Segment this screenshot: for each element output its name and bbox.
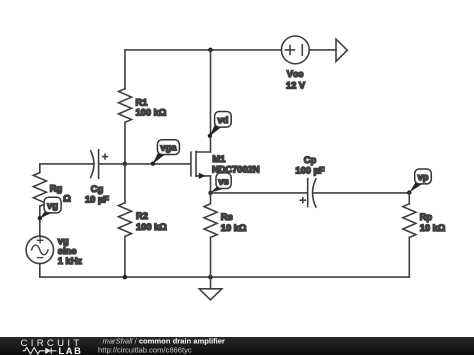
svg-text:Vcc: Vcc	[287, 69, 304, 79]
capacitor Cg	[40, 150, 109, 205]
svg-text:marShall / common drain amplif: marShall / common drain amplifier	[103, 337, 225, 346]
voltage source vg sine	[26, 236, 82, 266]
wire R1 top lead	[124, 50, 126, 89]
svg-text:100 kΩ: 100 kΩ	[136, 222, 167, 232]
node junction gate-branch	[123, 162, 128, 167]
node junction source-node	[208, 191, 212, 195]
svg-text:100 µF: 100 µF	[295, 166, 324, 176]
node vs	[211, 173, 231, 193]
terminal flag	[336, 39, 347, 61]
svg-text:1 kHz: 1 kHz	[58, 256, 83, 266]
svg-text:sine: sine	[58, 246, 77, 256]
resistor Rp	[403, 193, 446, 277]
wire output wire right	[313, 192, 410, 194]
wire source-to-node	[210, 176, 212, 193]
svg-text:Rp: Rp	[420, 212, 433, 222]
transistor M1 NMOS	[191, 151, 260, 179]
node junction drain-to-rail	[208, 48, 213, 53]
resistor R1	[119, 89, 167, 123]
svg-text:Rs: Rs	[221, 212, 233, 222]
wire drain wire	[210, 50, 212, 152]
svg-text:http://circuitlab.com/c866tyc: http://circuitlab.com/c866tyc	[98, 346, 192, 355]
svg-text:100 kΩ: 100 kΩ	[136, 108, 167, 118]
node vp	[410, 169, 432, 192]
capacitor Cp	[295, 155, 324, 207]
resistor Rs	[204, 193, 247, 277]
node vd	[208, 112, 232, 139]
voltage source V1 Vcc	[281, 36, 309, 91]
svg-text:M1: M1	[212, 154, 225, 164]
node junction Rp-top	[407, 190, 411, 194]
svg-text:Rg: Rg	[50, 183, 63, 193]
wire gate wire	[99, 163, 191, 165]
CircuitLab logo	[21, 338, 83, 355]
svg-text:LAB: LAB	[59, 346, 83, 355]
ground	[199, 277, 222, 300]
svg-text:10 µF: 10 µF	[85, 194, 109, 204]
svg-text:Cp: Cp	[304, 155, 317, 165]
svg-text:vg: vg	[58, 236, 69, 246]
wire R1 bottom lead	[124, 122, 126, 164]
svg-text:vs: vs	[218, 176, 228, 186]
resistor R2	[118, 164, 167, 277]
svg-text:vd: vd	[217, 115, 228, 125]
node junction Rs-rail	[208, 275, 213, 280]
svg-text:Cg: Cg	[91, 184, 104, 194]
svg-text:R2: R2	[136, 211, 148, 221]
wire output wire left	[211, 192, 308, 194]
svg-text:vga: vga	[160, 143, 177, 153]
node vg	[38, 197, 62, 220]
wire Vcc to flag	[309, 49, 336, 51]
wire top rail	[125, 49, 281, 51]
svg-text:10 kΩ: 10 kΩ	[420, 223, 446, 233]
node vga	[151, 140, 180, 166]
svg-text:Ω: Ω	[63, 194, 71, 204]
svg-text:10 kΩ: 10 kΩ	[221, 223, 247, 233]
svg-text:R1: R1	[136, 98, 148, 108]
svg-text:vp: vp	[418, 172, 429, 182]
footer bar	[0, 337, 474, 355]
wire source bottom lead	[39, 264, 41, 278]
resistor Rg	[33, 164, 71, 236]
wire bottom rail	[40, 276, 410, 278]
svg-text:vg: vg	[47, 201, 58, 211]
svg-text:12 V: 12 V	[286, 81, 306, 91]
node junction R2-rail	[123, 275, 128, 280]
